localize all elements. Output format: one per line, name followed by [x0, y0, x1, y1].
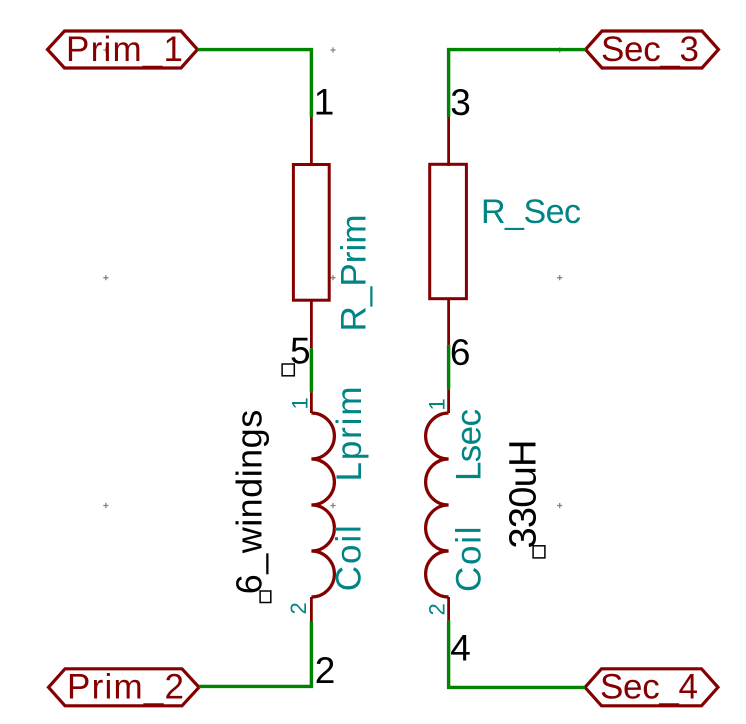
svg-text:3: 3	[450, 82, 471, 123]
svg-text:Coil: Coil	[450, 527, 489, 593]
svg-text:Sec_4: Sec_4	[600, 668, 698, 707]
resistor R_Prim pin 1	[310, 117, 313, 166]
svg-text:R_Prim: R_Prim	[335, 215, 374, 332]
wire Sec_3 to R_Sec	[449, 50, 586, 117]
hierarchical label Prim_1	[48, 30, 198, 69]
resistor R_Sec body	[430, 164, 467, 298]
hierarchical label Sec_4	[585, 668, 718, 707]
svg-text:R_Sec: R_Sec	[481, 193, 581, 231]
svg-text:5: 5	[290, 331, 311, 372]
svg-text:Sec_3: Sec_3	[601, 30, 699, 69]
svg-text:330uH: 330uH	[503, 440, 545, 549]
inductor Coil Lprim pin 2	[310, 597, 313, 622]
svg-text:6_windings: 6_windings	[229, 410, 270, 595]
svg-text:Coil: Coil	[330, 525, 369, 591]
wire R_Prim to Lprim	[310, 348, 313, 392]
inductor Coil Lprim arcs	[311, 413, 334, 597]
svg-text:2: 2	[286, 602, 311, 614]
svg-text:Lsec: Lsec	[450, 409, 489, 481]
resistor R_Prim pin 5	[310, 299, 313, 348]
anchor square near 330uH	[533, 546, 545, 558]
wire Lsec to Sec_4	[449, 620, 585, 687]
inductor Coil Lsec pin 1	[447, 389, 450, 413]
svg-text:Prim_2: Prim_2	[67, 668, 184, 707]
anchor square near pin 5	[282, 364, 294, 376]
hierarchical label Prim_2	[49, 668, 200, 707]
svg-text:Prim_1: Prim_1	[66, 30, 183, 69]
wire R_Sec to Lsec	[447, 345, 450, 389]
svg-text:2: 2	[425, 603, 450, 615]
svg-text:1: 1	[314, 82, 335, 123]
inductor Coil Lsec pin 2	[447, 597, 450, 620]
hierarchical label Sec_3	[586, 30, 719, 69]
svg-text:1: 1	[288, 397, 313, 409]
svg-text:6: 6	[450, 332, 471, 373]
resistor R_Prim body	[293, 165, 329, 301]
inductor Coil Lprim pin 1	[310, 392, 313, 413]
svg-text:1: 1	[424, 398, 449, 410]
inductor Coil Lsec arcs	[426, 413, 449, 597]
svg-text:2: 2	[315, 650, 336, 691]
svg-text:4: 4	[450, 628, 471, 669]
svg-text:Lprim: Lprim	[330, 387, 369, 482]
wire Lprim to Prim_2	[199, 622, 311, 687]
anchor square near 6_windings	[260, 591, 271, 603]
wire Prim_1 to R_Prim	[198, 50, 312, 118]
resistor R_Sec pin 6	[447, 298, 450, 345]
resistor R_Sec pin 3	[447, 117, 450, 166]
